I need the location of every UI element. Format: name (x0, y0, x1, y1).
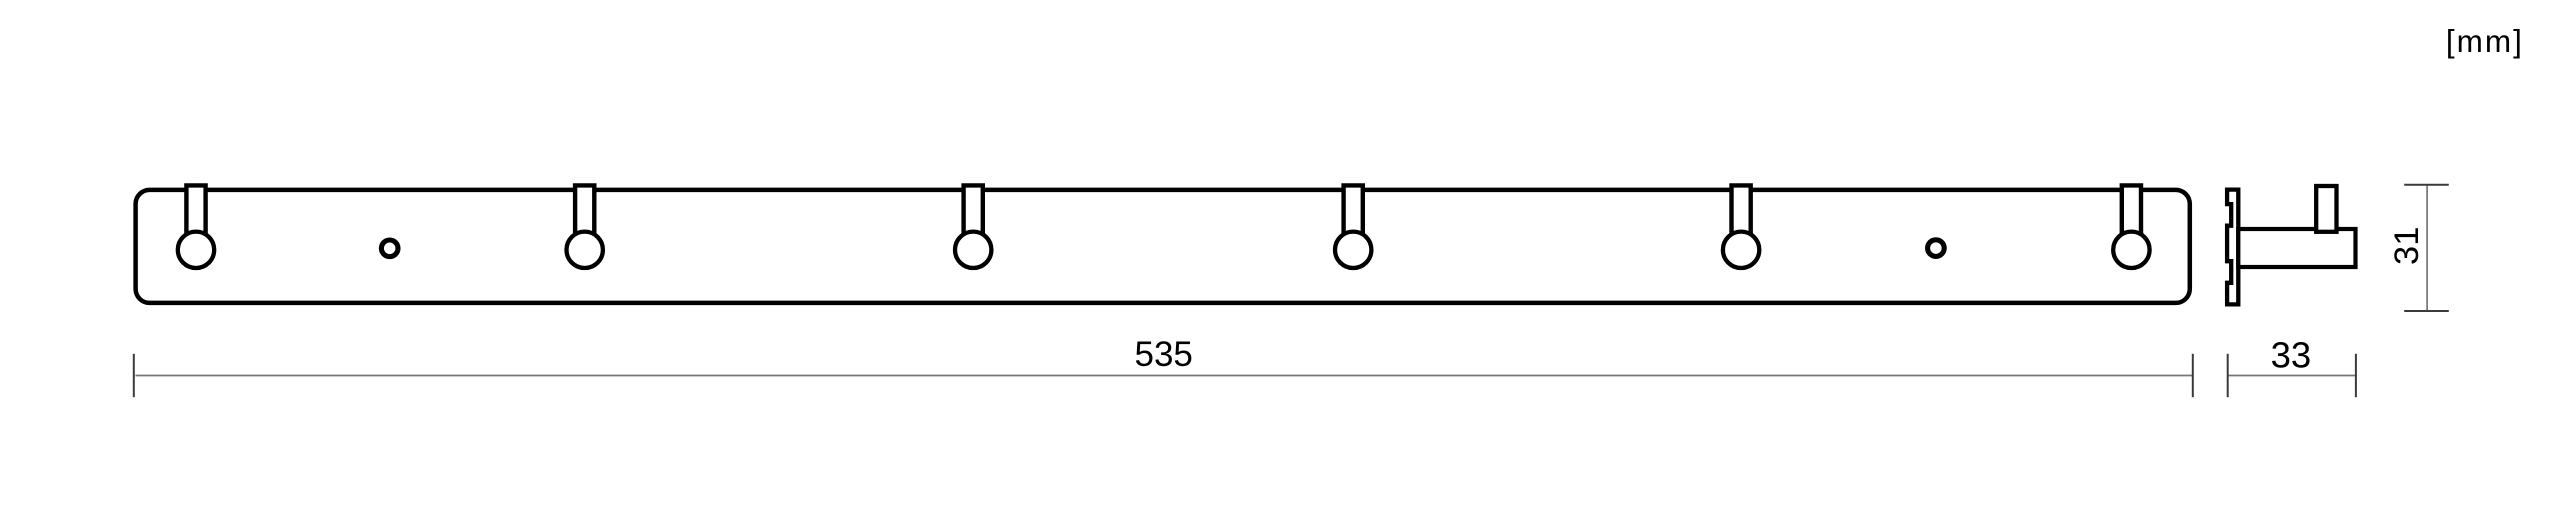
dim 33 right tick (2355, 354, 2357, 397)
dimension line 535 (136, 375, 2193, 377)
side view pin (2316, 186, 2336, 232)
dimension line 31 (2426, 185, 2428, 311)
hook 1 circle (178, 232, 214, 268)
hook 2 circle (567, 232, 603, 268)
side view plate with notches (2227, 190, 2238, 305)
hook 1 stem (186, 185, 205, 240)
hook 5 circle (1723, 232, 1759, 268)
hook 5 stem (1732, 185, 1751, 240)
dim 31 bottom tick (2404, 310, 2449, 312)
rail backplate (front view) (136, 190, 2190, 303)
dimension line 33 (2228, 375, 2356, 377)
dim 31 top tick (2404, 184, 2449, 186)
svg-text:535: 535 (1134, 335, 1192, 374)
svg-text:[mm]: [mm] (2446, 23, 2524, 59)
svg-text:31: 31 (2388, 227, 2426, 265)
dim 535 right tick (2192, 354, 2194, 397)
mounting hole left (381, 240, 398, 257)
svg-text:33: 33 (2271, 335, 2312, 376)
hook 6 circle (2113, 232, 2149, 268)
dim 535 left tick (133, 354, 135, 397)
hook 3 circle (955, 232, 991, 268)
hook 4 stem (1344, 185, 1363, 240)
side view hook arm (2238, 229, 2355, 267)
mounting hole right (1928, 240, 1945, 257)
hook 2 stem (575, 185, 594, 240)
hook 6 stem (2122, 185, 2141, 240)
hook 3 stem (964, 185, 983, 240)
hook 4 circle (1335, 232, 1371, 268)
dim 33 left tick (2227, 354, 2229, 397)
